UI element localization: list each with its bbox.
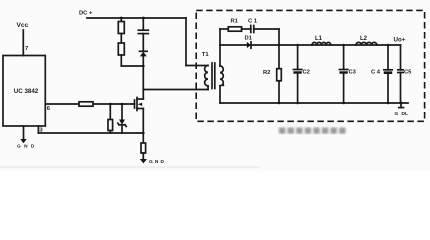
svg-text:C3: C3: [349, 69, 357, 75]
svg-text:G: G: [395, 111, 399, 117]
svg-text:DC +: DC +: [79, 11, 93, 17]
svg-text:D1: D1: [245, 35, 253, 41]
svg-text:DL: DL: [402, 111, 408, 117]
svg-text:L1: L1: [315, 36, 323, 42]
svg-text:T1: T1: [202, 52, 210, 58]
svg-text:R2: R2: [263, 70, 270, 76]
svg-text:7: 7: [25, 46, 28, 52]
svg-text:G N D: G N D: [17, 144, 35, 150]
svg-text:C5: C5: [404, 69, 412, 75]
svg-text:C 1: C 1: [248, 19, 258, 25]
svg-text:G N D: G N D: [149, 159, 164, 165]
svg-text:Vcc: Vcc: [17, 22, 29, 29]
svg-text:R1: R1: [231, 19, 239, 25]
svg-text:L2: L2: [360, 36, 368, 42]
svg-text:UC 3842: UC 3842: [14, 88, 39, 95]
svg-text:Uo+: Uo+: [394, 37, 406, 44]
svg-text:C 4: C 4: [371, 70, 381, 76]
svg-text:C2: C2: [303, 69, 310, 75]
